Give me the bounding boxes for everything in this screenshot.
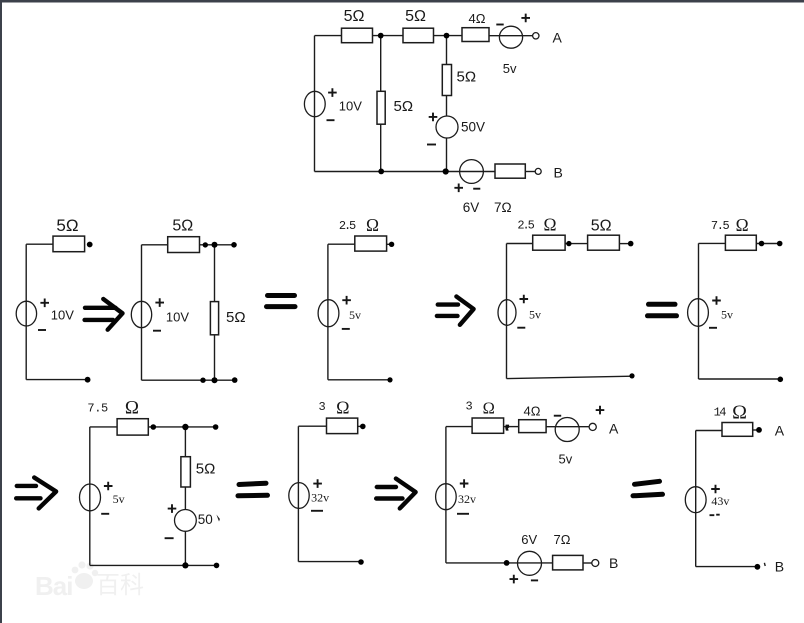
- minus of 10V: [327, 119, 335, 121]
- big arrow 2: [438, 302, 458, 306]
- terminal A open circle: [533, 33, 539, 39]
- node dot c6 after resistor: [151, 424, 157, 430]
- svg-text:A: A: [553, 29, 563, 45]
- wire between R2 and node: [434, 35, 463, 37]
- svg-text:Ω: Ω: [336, 398, 349, 418]
- minus c9 (broken dashes): [710, 514, 720, 517]
- wire c5 stub to terminal: [756, 243, 779, 245]
- resistor 3ohm c7: [327, 418, 358, 434]
- terminal B open circle: [535, 168, 541, 174]
- svg-text:32v: 32v: [458, 492, 476, 506]
- minus of 5v source: [496, 24, 503, 26]
- resistor 2.5ohm c4: [533, 235, 565, 250]
- resistor 7.5ohm c5: [725, 235, 756, 250]
- wire c1 left vertical: [25, 244, 27, 379]
- svg-text:6V: 6V: [521, 532, 537, 547]
- node dot c9 top terminal: [756, 427, 762, 433]
- voltage source 6V: [460, 160, 484, 184]
- node dot c3 bottom terminal: [387, 377, 392, 382]
- frame left bar: [0, 0, 2, 623]
- resistor 5ohm top-middle: [403, 28, 434, 43]
- svg-text:Bai: Bai: [35, 571, 72, 601]
- svg-text:5Ω: 5Ω: [226, 309, 246, 326]
- minus c3: [342, 328, 350, 330]
- svg-text:5Ω: 5Ω: [405, 8, 426, 25]
- svg-text:Ω: Ω: [125, 398, 139, 419]
- wire c5 left vertical: [698, 243, 700, 379]
- voltage source 50V: [436, 116, 458, 138]
- wire c4 left vertical: [506, 244, 508, 379]
- wire c8 4ohm to terminal A through source: [546, 426, 589, 428]
- voltage source 5v c5: [688, 299, 709, 327]
- wire c6 left vertical: [89, 427, 91, 566]
- svg-text:7.5: 7.5: [711, 219, 730, 233]
- resistor 5ohm middle vertical: [377, 91, 385, 124]
- resistor 4ohm: [462, 28, 489, 42]
- plus c9: [711, 485, 720, 494]
- resistor 7.5ohm c6: [117, 419, 148, 435]
- minus c4: [517, 327, 525, 329]
- node dot c6 shunt top: [182, 424, 188, 430]
- wire left branch vertical: [314, 36, 316, 172]
- minus c8 6V: [531, 579, 538, 581]
- plus of 10V: [328, 88, 337, 97]
- minus c6 50V: [165, 537, 174, 539]
- plus c3: [342, 296, 351, 305]
- voltage source 50V c6: [175, 510, 197, 532]
- wire c9 top: [696, 430, 722, 432]
- wire c1 bottom: [26, 379, 87, 381]
- resistor 5ohm series c2: [168, 237, 200, 253]
- svg-text:50V: 50V: [461, 119, 485, 134]
- svg-text:6V: 6V: [463, 200, 480, 215]
- minus c8 32v (long dash): [457, 513, 469, 515]
- svg-text:14: 14: [714, 406, 727, 420]
- svg-text:5Ω: 5Ω: [56, 216, 78, 235]
- node dot c2 shunt top: [212, 242, 218, 248]
- voltage source 10V c1: [16, 301, 36, 326]
- node dot c6 top terminal: [213, 424, 219, 430]
- tick mark near B c9: [763, 563, 766, 566]
- wire between R1 and R2: [373, 35, 404, 37]
- wire c2 left vertical: [141, 245, 143, 380]
- svg-text:2.5: 2.5: [517, 219, 534, 233]
- wire c5 top: [699, 242, 726, 244]
- node dot bottom-right junction: [443, 168, 449, 174]
- big arrow 4: [377, 485, 396, 489]
- voltage source 5v c3: [318, 300, 339, 327]
- node dot c5 top terminal: [777, 241, 783, 247]
- big arrow 1: [85, 306, 116, 310]
- svg-text:10V: 10V: [51, 308, 74, 323]
- resistor 14ohm c9: [722, 423, 753, 437]
- wire c8 top left: [446, 426, 472, 428]
- equals sign 1: [268, 293, 295, 298]
- wire c6 top right of resistor: [148, 426, 215, 428]
- voltage source 32v c8: [436, 484, 457, 510]
- node dot c1 bottom terminal: [85, 377, 91, 383]
- resistor 5ohm right vertical: [442, 65, 451, 96]
- wire c7 stub to dot: [358, 425, 363, 427]
- svg-text:7Ω: 7Ω: [554, 532, 571, 547]
- wire c3 left vertical: [327, 244, 329, 380]
- wire c3 stub to dot: [387, 243, 392, 245]
- svg-text:A: A: [609, 421, 619, 437]
- plus c7: [313, 479, 322, 488]
- svg-text:百科: 百科: [96, 572, 144, 599]
- plus c6 50V: [168, 504, 177, 513]
- svg-text:B: B: [609, 555, 618, 571]
- svg-text:5Ω: 5Ω: [172, 218, 193, 235]
- svg-text:10V: 10V: [339, 99, 362, 114]
- wire c4 between resistors: [565, 243, 588, 245]
- svg-text:7Ω: 7Ω: [494, 200, 512, 215]
- svg-text:5v: 5v: [503, 61, 517, 76]
- node dot c2 after resistor: [203, 242, 208, 247]
- wire c9 bottom: [696, 566, 758, 568]
- svg-text:5Ω: 5Ω: [591, 218, 612, 235]
- resistor 5ohm c1: [53, 236, 85, 252]
- svg-text:5Ω: 5Ω: [457, 69, 477, 86]
- equals sign 3: [239, 483, 266, 484]
- plus c2: [155, 298, 164, 307]
- plus c4: [520, 295, 529, 304]
- node dot c6 bottom shunt: [182, 562, 188, 568]
- svg-text:5v: 5v: [559, 452, 573, 467]
- svg-text:32v: 32v: [311, 490, 329, 504]
- node dot c5 after resistor: [759, 241, 765, 247]
- wire c6 bottom: [90, 564, 217, 566]
- wire c6 top left: [90, 426, 117, 428]
- terminal A c8: [589, 423, 596, 430]
- plus of 50V: [429, 113, 438, 122]
- minus c1: [38, 329, 46, 331]
- resistor 5ohm c4: [588, 235, 620, 250]
- wire middle branch vertical: [380, 36, 382, 172]
- svg-text:A: A: [775, 423, 785, 439]
- minus c8 5v source: [554, 415, 561, 417]
- svg-text:5v: 5v: [529, 307, 541, 321]
- voltage source 5v top-right: [499, 26, 522, 48]
- current arrowhead on wire c8: [505, 425, 509, 431]
- voltage source 5v c4: [498, 300, 516, 326]
- svg-text:Ω: Ω: [736, 215, 749, 235]
- node dot c7 bottom terminal: [358, 559, 364, 565]
- wire c8 7ohm to terminal B: [583, 562, 592, 564]
- wire c2 top: [142, 244, 168, 246]
- plus c8 6V: [510, 575, 519, 584]
- wire c8 between resistors: [504, 426, 519, 428]
- node dot c4 middle: [566, 241, 571, 246]
- node dot bottom-left junction: [378, 169, 384, 175]
- minus c2: [153, 330, 161, 332]
- wire c4 right stub: [619, 243, 630, 245]
- svg-text:4Ω: 4Ω: [524, 404, 541, 419]
- plus c8 5v source: [596, 406, 605, 415]
- wire c2 top right of resistor: [200, 244, 235, 246]
- voltage source 5v c8: [555, 418, 579, 442]
- plus of 5v source: [521, 14, 530, 23]
- minus of 50V: [427, 144, 436, 146]
- voltage source 10V c2: [131, 301, 151, 327]
- equals sign 2: [649, 302, 676, 307]
- big arrow 3: [17, 484, 36, 488]
- node dot c2 bottom left: [200, 378, 205, 383]
- svg-text:B: B: [775, 559, 784, 575]
- svg-text:43v: 43v: [711, 494, 729, 508]
- node dot c7 top terminal: [360, 424, 366, 430]
- wire c2 shunt vertical: [214, 245, 216, 380]
- resistor 7ohm: [495, 164, 525, 178]
- node dot c6 bottom terminal: [214, 563, 220, 569]
- svg-text:B: B: [554, 164, 563, 180]
- svg-text:5v: 5v: [349, 308, 361, 322]
- svg-text:Ω: Ω: [483, 398, 495, 417]
- node dot c2 top terminal: [231, 242, 237, 248]
- wire c8 left vertical: [445, 427, 447, 563]
- terminal B c8: [592, 560, 599, 567]
- node dot c1 top terminal: [87, 242, 93, 248]
- wire c3 top: [328, 243, 355, 245]
- resistor 5ohm shunt c2: [210, 302, 218, 335]
- node dot top-left junction: [378, 33, 384, 39]
- equals sign 4: [635, 481, 660, 484]
- wire 4ohm to terminal A through source: [489, 35, 533, 37]
- frame top bar: [0, 0, 804, 3]
- wire c8 bottom to 7ohm: [446, 562, 553, 564]
- resistor 5ohm top-left: [342, 28, 373, 43]
- voltage source 5v c6: [80, 484, 101, 511]
- svg-text:Ω: Ω: [732, 402, 747, 424]
- node dot c4 bottom terminal: [629, 373, 634, 378]
- plus c5: [712, 296, 721, 305]
- svg-text:5Ω: 5Ω: [394, 98, 414, 115]
- watermark baidu baike: [35, 561, 144, 601]
- minus c6 5v: [101, 513, 109, 515]
- resistor 5ohm shunt c6: [181, 457, 191, 487]
- svg-text:3: 3: [319, 400, 326, 414]
- svg-text:2.5: 2.5: [339, 219, 356, 233]
- svg-text:5Ω: 5Ω: [196, 461, 216, 478]
- plus c6 5v: [104, 482, 113, 491]
- plus of 6V: [454, 184, 463, 193]
- minus of 6V: [473, 188, 480, 190]
- resistor 7ohm c8: [553, 555, 583, 570]
- wire c1 top: [26, 243, 53, 245]
- node dot c9 bottom terminal: [755, 564, 761, 570]
- resistor 4ohm c8: [519, 420, 546, 433]
- wire c7 bottom: [298, 561, 361, 563]
- node dot c2 bottom terminal: [232, 377, 238, 383]
- wire c3 bottom: [328, 379, 390, 381]
- svg-text:4Ω: 4Ω: [469, 11, 486, 26]
- wire c7 left vertical: [297, 426, 299, 561]
- svg-text:Ω: Ω: [543, 215, 556, 235]
- node dot c4 top terminal: [628, 241, 634, 247]
- wire top rail left segment: [315, 35, 342, 37]
- wire right branch vertical: [446, 36, 448, 172]
- svg-text:50: 50: [198, 512, 213, 527]
- svg-text:5Ω: 5Ω: [344, 8, 365, 25]
- svg-text:3: 3: [466, 400, 473, 414]
- wire c9 stub to dot: [753, 429, 759, 431]
- svg-text:Ω: Ω: [366, 215, 379, 235]
- wire c6 shunt vertical: [184, 427, 186, 566]
- svg-text:5v: 5v: [721, 308, 733, 322]
- node dot c5 bottom terminal: [778, 377, 784, 383]
- wire c7 top: [298, 425, 326, 427]
- node dot c3 top terminal: [389, 242, 394, 247]
- voltage source 32v c7: [289, 483, 309, 509]
- wire c5 bottom: [699, 378, 781, 380]
- plus c8 32v: [460, 479, 469, 488]
- wire c4 bottom: [507, 376, 633, 378]
- node dot c8 bottom junction: [504, 560, 510, 566]
- node dot top-right junction: [444, 33, 450, 39]
- wire 7ohm to terminal B: [525, 171, 535, 173]
- resistor 3ohm c8: [472, 418, 504, 433]
- minus c7 (long dash): [311, 510, 323, 512]
- minus c5: [709, 327, 717, 329]
- voltage source 43v c9: [685, 487, 706, 513]
- plus c1: [40, 299, 49, 308]
- resistor 2.5ohm c3: [355, 236, 387, 251]
- wire c2 bottom: [142, 379, 235, 381]
- wire c9 left vertical: [695, 431, 697, 567]
- node dot c2 bottom shunt: [212, 377, 218, 383]
- voltage source 6V c8: [518, 551, 542, 575]
- voltage source 10V: [304, 91, 325, 116]
- wire bottom rail: [315, 171, 496, 173]
- svg-text:7.5: 7.5: [87, 402, 108, 416]
- wire c4 top: [507, 243, 533, 245]
- svg-text:10V: 10V: [166, 310, 189, 325]
- svg-text:5v: 5v: [113, 492, 125, 506]
